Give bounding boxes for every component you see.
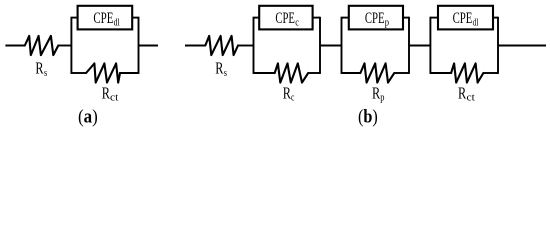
svg-text:p: p — [385, 16, 389, 28]
svg-text:R: R — [215, 59, 224, 78]
svg-text:s: s — [44, 68, 47, 79]
svg-text:(a): (a) — [78, 107, 98, 128]
svg-text:ct: ct — [467, 93, 475, 104]
svg-text:dl: dl — [114, 16, 120, 28]
svg-text:c: c — [291, 93, 295, 104]
svg-text:(b): (b) — [358, 107, 378, 128]
svg-text:CPE: CPE — [453, 10, 473, 27]
svg-text:CPE: CPE — [275, 10, 295, 27]
svg-text:R: R — [35, 59, 44, 78]
svg-text:p: p — [380, 93, 384, 104]
svg-text:c: c — [295, 16, 299, 28]
svg-text:CPE: CPE — [93, 10, 113, 27]
svg-text:ct: ct — [110, 93, 118, 104]
svg-text:s: s — [224, 68, 227, 79]
svg-text:dl: dl — [473, 16, 479, 28]
svg-text:CPE: CPE — [365, 10, 385, 27]
